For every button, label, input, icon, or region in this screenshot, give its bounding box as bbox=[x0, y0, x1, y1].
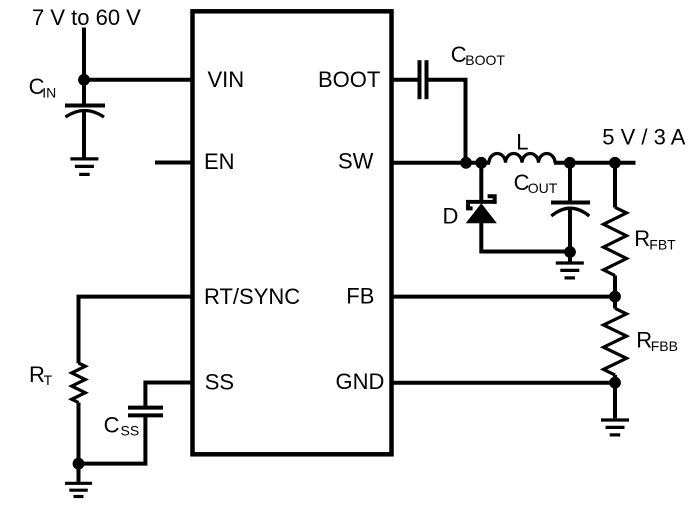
svg-text:EN: EN bbox=[204, 149, 235, 174]
svg-text:SW: SW bbox=[338, 148, 374, 173]
svg-text:IN: IN bbox=[42, 84, 56, 100]
svg-text:FBB: FBB bbox=[651, 338, 678, 354]
svg-text:C: C bbox=[104, 412, 120, 437]
svg-text:L: L bbox=[516, 129, 528, 154]
svg-text:T: T bbox=[44, 372, 53, 388]
svg-text:R: R bbox=[634, 226, 650, 251]
svg-text:BOOT: BOOT bbox=[465, 52, 505, 68]
svg-text:SS: SS bbox=[205, 370, 234, 395]
svg-text:VIN: VIN bbox=[208, 67, 245, 92]
svg-text:RT/SYNC: RT/SYNC bbox=[204, 284, 300, 309]
svg-text:FBT: FBT bbox=[649, 236, 676, 252]
svg-text:GND: GND bbox=[336, 369, 385, 394]
svg-text:SS: SS bbox=[121, 422, 140, 438]
svg-text:OUT: OUT bbox=[528, 180, 558, 196]
svg-text:FB: FB bbox=[346, 284, 374, 309]
svg-text:5 V / 3 A: 5 V / 3 A bbox=[602, 124, 685, 149]
svg-text:R: R bbox=[29, 362, 45, 387]
svg-text:BOOT: BOOT bbox=[318, 67, 380, 92]
svg-text:7 V to 60 V: 7 V to 60 V bbox=[32, 5, 141, 30]
svg-text:D: D bbox=[443, 203, 459, 228]
